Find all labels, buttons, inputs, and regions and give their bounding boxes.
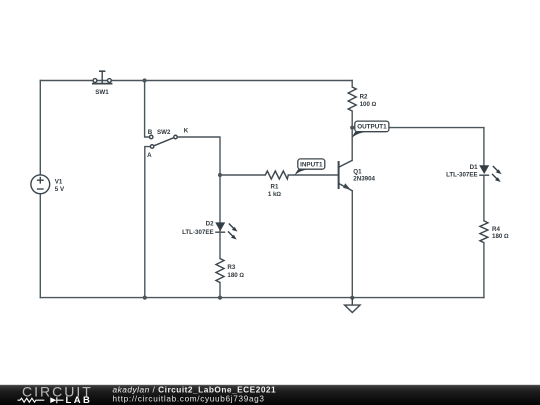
svg-text:1 kΩ: 1 kΩ (268, 191, 282, 198)
svg-text:180 Ω: 180 Ω (227, 272, 244, 279)
svg-text:D1: D1 (470, 164, 478, 171)
svg-text:B: B (148, 129, 153, 136)
svg-text:akadylan / Circuit2_LabOne_ECE: akadylan / Circuit2_LabOne_ECE2021 (113, 384, 277, 394)
pushbutton SW1 (92, 71, 112, 83)
svg-text:D2: D2 (206, 220, 214, 227)
wire R3 bottom to bottom rail (219, 283, 221, 298)
wire bottom rail (40, 297, 484, 299)
wire from top rail down to SW2 terminal B (145, 81, 149, 138)
SPDT switch SW2 (149, 135, 177, 148)
svg-text:LAB: LAB (66, 395, 93, 405)
svg-text:SW1: SW1 (95, 89, 109, 96)
wire left: V1 bottom lead (39, 194, 41, 298)
svg-text:A: A (147, 152, 152, 159)
junction dot SW2-A branch at bottom rail (143, 296, 147, 300)
svg-text:R2: R2 (360, 94, 368, 101)
wire top rail V1+ to R2 (40, 80, 352, 82)
svg-text:100 Ω: 100 Ω (360, 101, 377, 108)
LED D2 (215, 222, 237, 239)
voltage source V1 (31, 175, 50, 194)
svg-text:180 Ω: 180 Ω (492, 233, 509, 240)
wire OUTPUT1 node to right branch (352, 127, 484, 129)
ground (345, 298, 360, 313)
wire right branch down to D1 anode (483, 128, 485, 166)
resistor R1 (265, 171, 288, 179)
wire D1 cathode to R4 (483, 175, 485, 221)
svg-text:R3: R3 (227, 264, 235, 271)
wire R2 top lead (351, 81, 353, 88)
junction dot base branch node (218, 173, 222, 177)
footer bar (0, 385, 540, 405)
svg-text:V1: V1 (55, 179, 63, 186)
svg-text:SW2: SW2 (157, 129, 171, 136)
CircuitLab logo resistor-diode symbol (18, 397, 64, 403)
svg-text:LTL-307EE: LTL-307EE (446, 171, 478, 178)
junction dot top rail / SW2 branch (143, 78, 147, 82)
svg-text:LTL-307EE: LTL-307EE (182, 229, 214, 236)
transistor Q1 2N3904 (339, 160, 353, 190)
svg-text:2N3904: 2N3904 (353, 176, 375, 183)
wire R1 to Q1 base (288, 174, 338, 176)
wire base branch: node to R1 (220, 174, 265, 176)
svg-text:Q1: Q1 (353, 168, 362, 175)
svg-text:K: K (184, 128, 189, 135)
wire R4 bottom to bottom rail (483, 243, 485, 298)
LED D1 (479, 165, 501, 182)
resistor R4 (480, 221, 488, 243)
wire SW2 terminal K to node at base branch (177, 137, 220, 259)
resistor R2 (348, 87, 356, 111)
net flag OUTPUT1 (352, 121, 389, 138)
wire R2 bottom to Q1 collector (351, 111, 353, 160)
svg-text:OUTPUT1: OUTPUT1 (357, 124, 387, 131)
junction dot OUTPUT1 node (350, 126, 354, 130)
wire left: V1 top lead (39, 81, 41, 175)
svg-text:http://circuitlab.com/cyuub6j7: http://circuitlab.com/cyuub6j739ag3 (113, 395, 265, 404)
net flag INPUT1 (295, 159, 325, 176)
wire Q1 emitter down to ground node (351, 191, 353, 298)
resistor R3 (216, 259, 224, 283)
svg-text:R4: R4 (492, 226, 500, 233)
wire SW2 terminal A down to bottom rail (145, 147, 150, 298)
junction dot ground node at bottom rail (350, 296, 354, 300)
junction dot R3 branch at bottom rail (218, 296, 222, 300)
svg-text:R1: R1 (271, 184, 279, 191)
svg-text:5 V: 5 V (55, 186, 65, 193)
svg-text:INPUT1: INPUT1 (300, 161, 323, 168)
